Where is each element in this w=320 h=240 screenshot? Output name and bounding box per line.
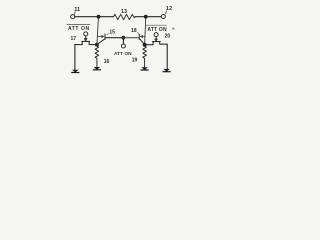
resistor R13 — [114, 14, 136, 19]
transistor Q15 — [97, 34, 105, 45]
svg-text:16: 16 — [104, 59, 110, 65]
resistor R16 — [95, 46, 99, 67]
wire: node B down to node B2 — [145, 17, 146, 45]
wire: Q17 source down to ground — [74, 45, 76, 70]
ground (right outer) — [163, 69, 171, 72]
wire: node B to terminal 12 — [146, 16, 162, 18]
leader line for 15 — [107, 33, 109, 35]
terminal 12 — [161, 15, 165, 19]
mid node junction dot — [122, 36, 126, 40]
wire: mid node down to gate terminal — [122, 39, 124, 44]
transistor Q17 — [75, 36, 96, 45]
overline of right ATT ON — [146, 24, 167, 26]
wire: node A down to node A2 — [97, 17, 99, 45]
svg-text:12: 12 — [166, 6, 172, 12]
svg-text:15: 15 — [109, 30, 115, 36]
node B2 junction dot — [143, 43, 147, 47]
transistor Q20 — [146, 37, 167, 45]
gate terminal circle of Q20 — [154, 33, 158, 37]
svg-text:19: 19 — [132, 58, 138, 64]
wire: resistor 13 to node B — [135, 16, 144, 18]
node A junction dot — [97, 15, 101, 19]
svg-text:18: 18 — [131, 28, 137, 34]
wire: Q20 source down to ground — [166, 44, 168, 69]
ground (below R16) — [93, 67, 101, 70]
gate terminal circle of Q17 — [84, 32, 88, 36]
leader line for 11 — [74, 12, 77, 15]
svg-text:17: 17 — [71, 36, 77, 42]
node A2 junction dot — [95, 43, 99, 47]
svg-text:13: 13 — [121, 9, 127, 15]
svg-text:ATT ON: ATT ON — [114, 51, 132, 57]
wire: Q15 drain to mid node — [106, 37, 123, 39]
leader line for 12 — [165, 11, 168, 14]
ground (left outer) — [71, 70, 79, 73]
scan artifact blob — [172, 28, 175, 30]
ground (below R19) — [141, 67, 149, 70]
terminal 11 — [71, 15, 75, 19]
transistor Q18 — [139, 34, 144, 45]
resistor R19 — [143, 46, 147, 67]
svg-text:ATT ON: ATT ON — [147, 27, 167, 33]
node B junction dot — [144, 15, 148, 19]
overline of left ATT ON — [67, 23, 90, 25]
wire: node A to resistor 13 — [99, 16, 114, 18]
wire: terminal 11 to node A — [75, 16, 97, 18]
svg-text:20: 20 — [165, 34, 171, 40]
leader line for 18 — [137, 32, 139, 33]
gate drive terminal circle (ATT ON) — [121, 44, 125, 48]
svg-text:ATT ON: ATT ON — [68, 26, 90, 32]
wire: mid node to Q18 — [123, 37, 139, 39]
